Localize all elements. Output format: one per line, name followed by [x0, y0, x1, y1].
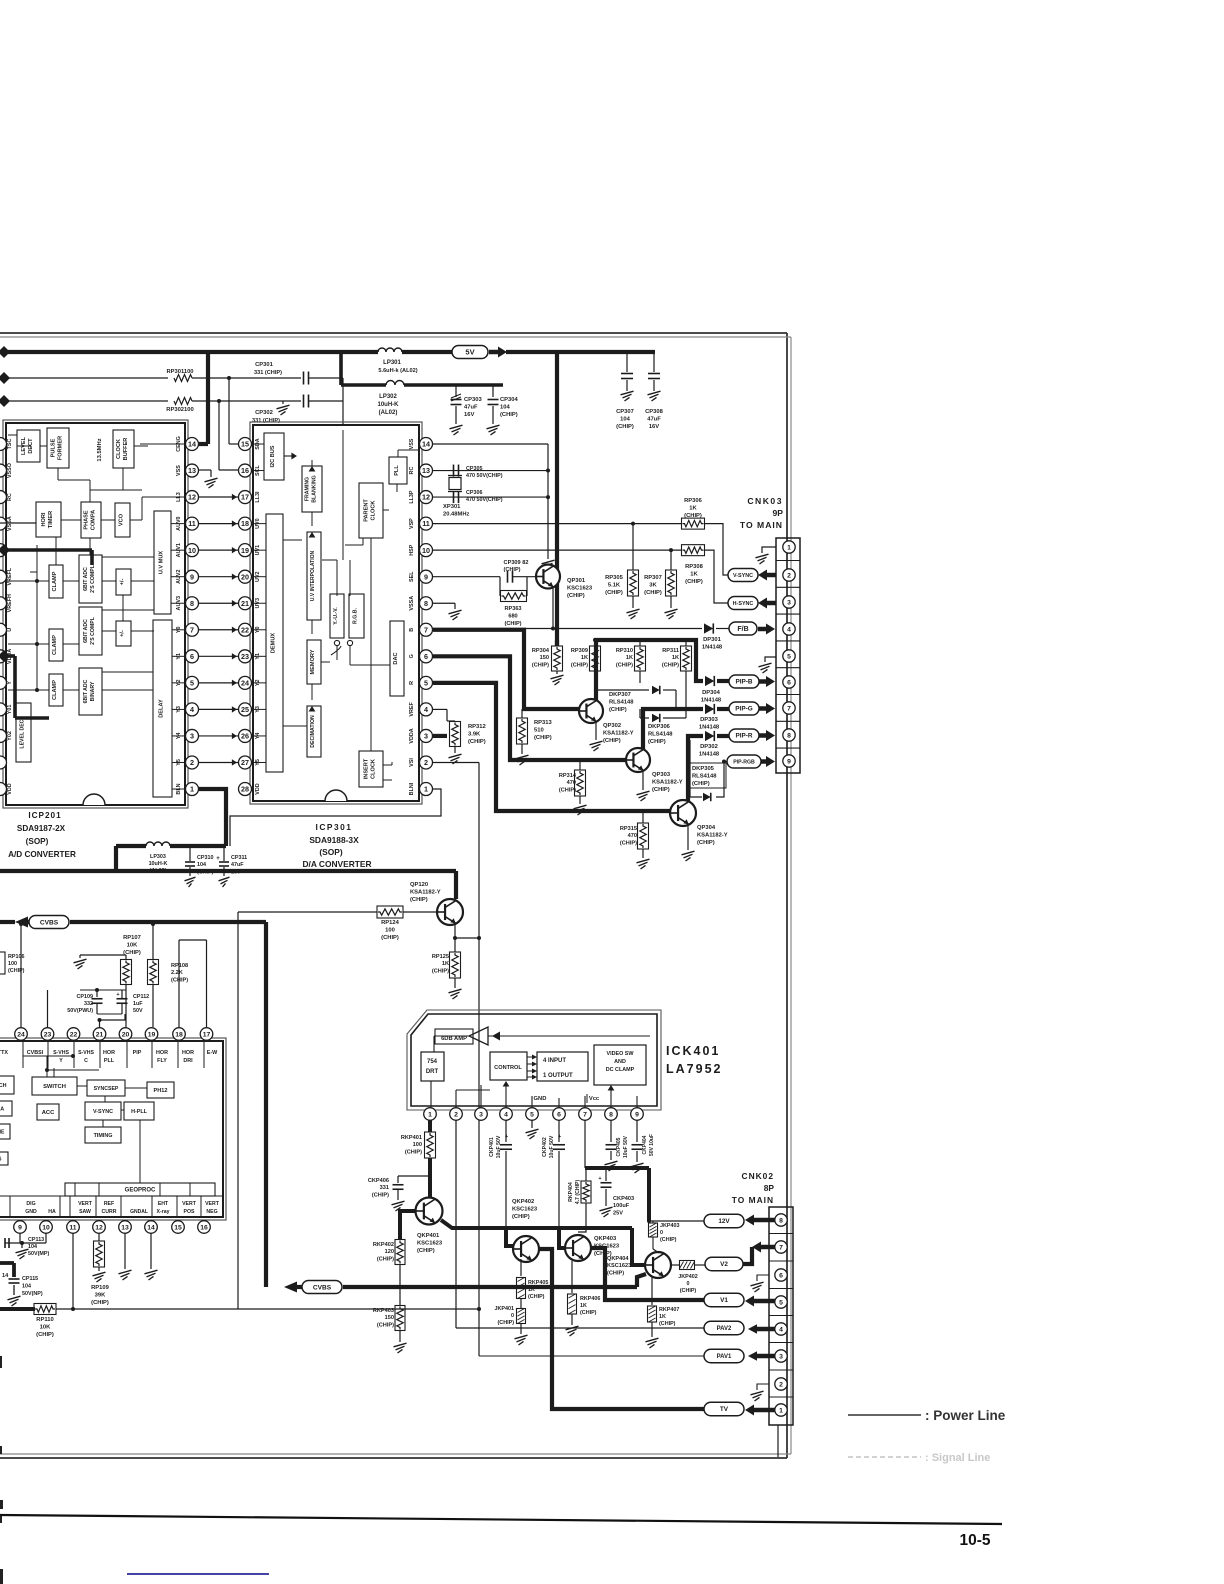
svg-text:EHT: EHT [158, 1201, 169, 1207]
svg-text:CVBS: CVBS [313, 1284, 332, 1291]
svg-text:21: 21 [96, 1031, 104, 1038]
svg-text:1N4148: 1N4148 [701, 697, 722, 703]
svg-text:10uH-K: 10uH-K [149, 861, 168, 867]
svg-text:+: + [598, 1176, 601, 1182]
svg-text:4: 4 [779, 1326, 783, 1333]
svg-text:V2: V2 [720, 1261, 728, 1268]
svg-text:RP312: RP312 [468, 724, 486, 730]
svg-text:DELAY: DELAY [159, 699, 165, 718]
svg-text:GND: GND [25, 1209, 37, 1215]
svg-text:2: 2 [424, 758, 428, 767]
svg-text:DKP307: DKP307 [609, 692, 631, 698]
svg-text:GNDAL: GNDAL [130, 1209, 148, 1215]
svg-text:PULSE: PULSE [51, 438, 57, 457]
svg-text:25V: 25V [613, 1210, 623, 1216]
svg-text:1K: 1K [689, 506, 697, 512]
svg-text:10-5: 10-5 [959, 1532, 990, 1549]
svg-text:(CHIP): (CHIP) [410, 897, 428, 903]
svg-text:23: 23 [241, 652, 249, 661]
svg-text:3: 3 [787, 599, 791, 606]
svg-text:6BIT ADC: 6BIT ADC [83, 567, 89, 591]
svg-text:QP120: QP120 [410, 882, 428, 888]
svg-text:VIDEO SW: VIDEO SW [607, 1051, 635, 1057]
svg-text:KSC1623: KSC1623 [607, 1263, 631, 1269]
svg-text:TO MAIN: TO MAIN [740, 520, 783, 530]
svg-text:RP309: RP309 [571, 648, 588, 654]
svg-text:6BIT ADC: 6BIT ADC [83, 679, 89, 703]
svg-text:(CHIP): (CHIP) [504, 621, 521, 627]
svg-text:(CHIP): (CHIP) [603, 738, 621, 744]
svg-text:100: 100 [8, 961, 17, 967]
svg-text:(CHIP): (CHIP) [571, 662, 588, 668]
svg-text:104: 104 [500, 404, 510, 410]
svg-text:3: 3 [479, 1111, 483, 1118]
svg-text:JKP403: JKP403 [660, 1223, 679, 1229]
svg-text:VSSA: VSSA [409, 596, 415, 611]
svg-text:20: 20 [122, 1031, 130, 1038]
svg-text:RP301100: RP301100 [166, 369, 193, 375]
svg-text:(CHIP): (CHIP) [660, 1237, 677, 1243]
svg-text:(CHIP): (CHIP) [559, 787, 576, 793]
svg-text:104: 104 [620, 417, 630, 423]
svg-text:S-VHS: S-VHS [78, 1050, 94, 1056]
svg-text:QKP404: QKP404 [607, 1256, 629, 1262]
svg-text:22: 22 [241, 625, 249, 634]
svg-text:QKP401: QKP401 [417, 1233, 440, 1239]
svg-text:(CHIP): (CHIP) [377, 1322, 394, 1328]
svg-text:CP308: CP308 [645, 409, 664, 415]
svg-text:PAV1: PAV1 [717, 1354, 732, 1360]
svg-text:2'S COMPL: 2'S COMPL [90, 616, 96, 645]
svg-text:I2C BUS: I2C BUS [270, 445, 276, 467]
svg-text:20.48MHz: 20.48MHz [443, 511, 470, 517]
svg-text:QKP403: QKP403 [594, 1236, 617, 1242]
svg-text:NEG: NEG [206, 1209, 217, 1215]
svg-text:50V(NP): 50V(NP) [22, 1291, 43, 1297]
svg-text:CP305: CP305 [466, 466, 482, 472]
svg-text:KSA1182-Y: KSA1182-Y [697, 832, 728, 838]
svg-text:2: 2 [779, 1381, 783, 1388]
svg-text:PIP-R: PIP-R [735, 733, 752, 740]
svg-text:CKP405: CKP405 [616, 1137, 622, 1156]
svg-text:INSERT: INSERT [364, 758, 370, 779]
svg-text:(CHIP): (CHIP) [512, 1214, 530, 1220]
svg-text:332: 332 [84, 1001, 93, 1007]
svg-text:LA7952: LA7952 [666, 1062, 722, 1076]
svg-text:E-W: E-W [207, 1050, 218, 1056]
svg-text:19: 19 [241, 546, 249, 555]
svg-text:1K: 1K [659, 1314, 666, 1320]
svg-text:1K: 1K [672, 655, 679, 661]
svg-text:: Power Line: : Power Line [925, 1408, 1006, 1423]
svg-text:(CHIP): (CHIP) [381, 935, 399, 941]
svg-text:PIP-G: PIP-G [735, 706, 752, 713]
svg-text:6BIT ADC: 6BIT ADC [83, 619, 89, 643]
svg-text:RKP405: RKP405 [528, 1280, 548, 1286]
svg-text:(CHIP): (CHIP) [8, 968, 25, 974]
svg-text:QKP402: QKP402 [512, 1199, 534, 1205]
svg-text:LEVEL DECT: LEVEL DECT [20, 716, 26, 749]
svg-text:8: 8 [779, 1217, 783, 1224]
svg-text:LP302: LP302 [379, 394, 397, 400]
svg-text:1: 1 [779, 1407, 783, 1414]
svg-text:PIP-B: PIP-B [735, 679, 752, 686]
svg-text:QP301: QP301 [567, 578, 586, 584]
svg-text:331 (CHIP): 331 (CHIP) [254, 370, 282, 376]
svg-text:KSA1182-Y: KSA1182-Y [410, 889, 441, 895]
svg-text:11: 11 [422, 519, 430, 528]
svg-text:4 INPUT: 4 INPUT [543, 1058, 566, 1064]
svg-text:0: 0 [660, 1230, 663, 1236]
svg-text:RP124: RP124 [381, 920, 400, 926]
svg-text:(CHIP): (CHIP) [620, 840, 637, 846]
svg-text:CKP402: CKP402 [542, 1137, 548, 1157]
svg-text:(SOP): (SOP) [319, 847, 342, 857]
svg-text:LP301: LP301 [383, 360, 401, 366]
svg-text:470 50V(CHIP): 470 50V(CHIP) [466, 473, 503, 479]
svg-text:1N4148: 1N4148 [699, 751, 720, 757]
svg-text:50V 10uF: 50V 10uF [649, 1134, 655, 1156]
svg-text:X-ray: X-ray [157, 1209, 170, 1215]
svg-text:3: 3 [424, 732, 428, 741]
svg-text:5: 5 [787, 653, 791, 660]
svg-text:Vcc: Vcc [589, 1096, 600, 1102]
svg-text:5: 5 [779, 1299, 783, 1306]
svg-text:754: 754 [427, 1059, 438, 1065]
svg-text:(CHIP): (CHIP) [468, 739, 486, 745]
svg-text:RKP402: RKP402 [373, 1242, 394, 1248]
svg-text:SWITCH: SWITCH [43, 1084, 66, 1090]
svg-text:VSSO: VSSO [7, 463, 13, 478]
svg-text:XP301: XP301 [443, 504, 461, 510]
svg-text:3.9K: 3.9K [468, 732, 481, 738]
svg-text:Y: Y [59, 1058, 63, 1064]
svg-text:150: 150 [385, 1315, 394, 1321]
svg-text:U: U [7, 628, 13, 632]
svg-text:VREFH: VREFH [7, 594, 13, 612]
svg-text:HSP: HSP [409, 544, 415, 555]
svg-text:C: C [84, 1058, 88, 1064]
svg-text:(CHIP): (CHIP) [659, 1321, 676, 1327]
svg-text:47uF: 47uF [464, 404, 478, 410]
svg-text:(CHIP): (CHIP) [567, 593, 585, 599]
svg-text:5: 5 [530, 1111, 534, 1118]
svg-text:RLS4148: RLS4148 [609, 699, 634, 705]
svg-text:6: 6 [190, 652, 194, 661]
svg-text:6: 6 [779, 1272, 783, 1279]
svg-text:TIMING: TIMING [94, 1133, 113, 1139]
svg-text:16V: 16V [464, 412, 474, 418]
svg-text:COMPA: COMPA [91, 510, 97, 530]
svg-text:12: 12 [422, 493, 430, 502]
svg-text:TTX: TTX [0, 1050, 8, 1056]
svg-text:(CHIP): (CHIP) [616, 424, 634, 430]
svg-text:23: 23 [44, 1031, 52, 1038]
svg-text:(CHIP): (CHIP) [532, 662, 549, 668]
svg-text:LL3I: LL3I [255, 491, 261, 503]
svg-text:(CHIP): (CHIP) [648, 739, 666, 745]
svg-text:H-SYNC: H-SYNC [733, 601, 754, 607]
svg-text:+: + [505, 1134, 508, 1140]
svg-text:QP302: QP302 [603, 723, 621, 729]
svg-text:47uF: 47uF [231, 862, 244, 868]
svg-text:H-PLL: H-PLL [131, 1109, 148, 1115]
svg-text:1: 1 [190, 785, 194, 794]
svg-text:8: 8 [609, 1111, 613, 1118]
svg-text:6: 6 [424, 652, 428, 661]
svg-text:14: 14 [2, 1273, 9, 1279]
svg-text:1K: 1K [580, 1303, 587, 1309]
svg-text:9: 9 [635, 1111, 639, 1118]
svg-text:U.V MUX: U.V MUX [159, 551, 165, 575]
svg-text:HOR: HOR [182, 1050, 194, 1056]
svg-text:MEMORY: MEMORY [310, 649, 316, 674]
svg-text:22: 22 [70, 1031, 78, 1038]
svg-text:2'S COMPL: 2'S COMPL [90, 564, 96, 593]
svg-text:1K: 1K [626, 655, 633, 661]
svg-text:CP309 82: CP309 82 [504, 560, 529, 566]
svg-text:(CHIP): (CHIP) [432, 968, 449, 974]
svg-text:CP306: CP306 [466, 490, 482, 496]
svg-text:1: 1 [424, 785, 428, 794]
svg-text:10: 10 [188, 546, 196, 555]
svg-text:(CHIP): (CHIP) [500, 412, 518, 418]
svg-text:RP305: RP305 [605, 575, 624, 581]
svg-text:(CHIP): (CHIP) [528, 1294, 545, 1300]
svg-text:9: 9 [424, 572, 428, 581]
svg-text:27: 27 [241, 758, 249, 767]
svg-text:VREFL: VREFL [7, 567, 13, 585]
svg-text:6: 6 [557, 1111, 561, 1118]
svg-text:100: 100 [385, 927, 395, 933]
svg-text:BUFFER: BUFFER [123, 438, 129, 461]
svg-text:19: 19 [148, 1031, 156, 1038]
svg-text:SDA9187-2X: SDA9187-2X [17, 824, 66, 833]
svg-text:(CHIP): (CHIP) [372, 1192, 389, 1198]
svg-text:0: 0 [511, 1313, 514, 1319]
svg-text:(CHIP): (CHIP) [609, 707, 627, 713]
svg-text:15: 15 [241, 440, 249, 449]
svg-text:FLY: FLY [157, 1058, 167, 1064]
svg-text:24: 24 [241, 678, 249, 687]
svg-text:CP112: CP112 [133, 994, 149, 1000]
svg-text:CVBSI: CVBSI [27, 1050, 44, 1056]
svg-text:9: 9 [18, 1224, 22, 1231]
svg-text:470: 470 [628, 833, 637, 839]
svg-text:3: 3 [779, 1353, 783, 1360]
svg-text:DRI: DRI [183, 1058, 193, 1064]
svg-text:10uH-K: 10uH-K [377, 402, 399, 408]
svg-text:LL3P: LL3P [409, 490, 415, 504]
svg-text:KSC1623: KSC1623 [567, 586, 593, 592]
svg-text:(CHIP): (CHIP) [498, 1320, 515, 1326]
svg-text:(CHIP): (CHIP) [684, 513, 702, 519]
svg-text:RP107: RP107 [123, 935, 141, 941]
svg-text:V-SYNC: V-SYNC [733, 573, 753, 579]
svg-text:9: 9 [190, 572, 194, 581]
svg-text:PLL: PLL [104, 1058, 115, 1064]
svg-text:+: + [116, 992, 119, 998]
svg-text:RKP404: RKP404 [568, 1182, 574, 1202]
svg-text:CLOCK: CLOCK [371, 759, 377, 779]
svg-text:13: 13 [121, 1224, 129, 1231]
svg-text:CP109: CP109 [77, 994, 93, 1000]
svg-text:CKP401: CKP401 [489, 1137, 495, 1157]
svg-text:(CHIP): (CHIP) [680, 1288, 697, 1294]
svg-text:150: 150 [540, 655, 549, 661]
svg-text:28: 28 [241, 785, 249, 794]
svg-text:PAV2: PAV2 [717, 1326, 732, 1332]
svg-text:PIP-RGB: PIP-RGB [733, 759, 755, 765]
svg-text:RKP401: RKP401 [401, 1135, 422, 1141]
svg-text:R.G.B.: R.G.B. [353, 608, 359, 624]
svg-text:JKP402: JKP402 [678, 1274, 697, 1280]
svg-text:4: 4 [504, 1111, 508, 1118]
svg-text:DEMUX: DEMUX [271, 633, 277, 653]
svg-text:13.5MHz: 13.5MHz [97, 438, 103, 461]
svg-text:18: 18 [175, 1031, 183, 1038]
svg-text:HOR: HOR [156, 1050, 168, 1056]
svg-text:CLAMP: CLAMP [52, 680, 58, 700]
svg-text:16: 16 [200, 1224, 208, 1231]
svg-text:FRAMING: FRAMING [305, 477, 311, 501]
svg-text:F/B: F/B [737, 626, 748, 633]
svg-text:CNK02: CNK02 [742, 1171, 774, 1181]
svg-text:331: 331 [380, 1185, 389, 1191]
svg-text:12: 12 [95, 1224, 103, 1231]
svg-text:POS: POS [184, 1209, 195, 1215]
svg-text:CKP404: CKP404 [642, 1135, 648, 1154]
svg-text:(CHIP): (CHIP) [692, 781, 710, 787]
svg-text:6DB AMP: 6DB AMP [441, 1036, 467, 1042]
svg-text:(CHIP): (CHIP) [36, 1332, 54, 1338]
svg-text:RP306: RP306 [684, 498, 703, 504]
svg-text:Y01: Y01 [7, 705, 13, 715]
svg-text:13: 13 [422, 466, 430, 475]
svg-text:RP106: RP106 [8, 954, 24, 960]
svg-text:21: 21 [241, 599, 249, 608]
svg-text:REF: REF [104, 1201, 114, 1207]
svg-text:11: 11 [69, 1224, 76, 1231]
svg-text:6: 6 [787, 679, 791, 686]
svg-text:AS: AS [0, 1156, 2, 1162]
svg-text:11: 11 [188, 519, 196, 528]
svg-text:CP301: CP301 [255, 362, 274, 368]
svg-text:RP307: RP307 [644, 575, 662, 581]
svg-text:5V: 5V [465, 348, 474, 357]
svg-text:CP115: CP115 [22, 1276, 38, 1282]
svg-text:+/-: +/- [120, 630, 126, 637]
svg-text:3: 3 [190, 732, 194, 741]
svg-text:470: 470 [567, 780, 576, 786]
svg-text:RLS4148: RLS4148 [692, 773, 717, 779]
svg-text:TIMER: TIMER [48, 511, 54, 528]
svg-text:CNK03: CNK03 [747, 496, 783, 506]
svg-text:7: 7 [779, 1244, 783, 1251]
svg-text:331 (CHIP): 331 (CHIP) [252, 418, 280, 424]
svg-text:RKP403: RKP403 [373, 1308, 394, 1314]
svg-text:(CHIP): (CHIP) [644, 590, 662, 596]
svg-text:10uF 50V: 10uF 50V [623, 1135, 629, 1158]
svg-text:CKP406: CKP406 [368, 1178, 389, 1184]
svg-text:RP302100: RP302100 [166, 407, 193, 413]
svg-text:BINARY: BINARY [90, 681, 96, 701]
svg-text:104: 104 [197, 862, 206, 868]
svg-text:V-SYNC: V-SYNC [93, 1109, 113, 1115]
svg-text:3K: 3K [649, 583, 657, 589]
svg-text:104: 104 [22, 1283, 31, 1289]
svg-text:14: 14 [188, 440, 196, 449]
svg-text:PARENT: PARENT [364, 499, 370, 522]
svg-text:PLL: PLL [394, 465, 400, 476]
svg-text:RP310: RP310 [616, 648, 633, 654]
svg-text:DECIMATION: DECIMATION [310, 715, 316, 748]
svg-text:RP304: RP304 [532, 648, 550, 654]
svg-text:CONTROL: CONTROL [494, 1065, 522, 1071]
svg-text:HA: HA [48, 1209, 56, 1215]
svg-text:PHASE: PHASE [84, 510, 90, 530]
svg-text:470 50V(CHIP): 470 50V(CHIP) [466, 497, 503, 503]
svg-text:(CHIP): (CHIP) [580, 1310, 597, 1316]
svg-text:RP311: RP311 [662, 648, 679, 654]
svg-text:(CHIP): (CHIP) [91, 1300, 109, 1306]
svg-text:VSP: VSP [409, 518, 415, 529]
svg-text:RLS4148: RLS4148 [648, 731, 673, 737]
svg-text:CVBS: CVBS [40, 919, 59, 926]
svg-text:16V: 16V [649, 424, 659, 430]
svg-text:17: 17 [241, 493, 249, 502]
svg-text:RKP406: RKP406 [580, 1296, 600, 1302]
svg-text:CP310: CP310 [197, 855, 213, 861]
svg-text:16: 16 [241, 466, 249, 475]
svg-text:(CHIP): (CHIP) [685, 579, 703, 585]
svg-text:10K: 10K [40, 1324, 51, 1330]
svg-text:RP108: RP108 [171, 963, 188, 969]
svg-text:DC CLAMP: DC CLAMP [606, 1067, 635, 1073]
svg-text:S-VHS: S-VHS [53, 1050, 69, 1056]
svg-text:17: 17 [203, 1031, 211, 1038]
svg-text:2.2K: 2.2K [171, 970, 183, 976]
svg-text:DP303: DP303 [700, 717, 719, 723]
svg-text:50V(MP): 50V(MP) [28, 1251, 49, 1257]
svg-text:1N4148: 1N4148 [699, 724, 720, 730]
svg-text:DP302: DP302 [700, 744, 718, 750]
svg-text:2: 2 [454, 1111, 458, 1118]
svg-text:BLNI: BLNI [409, 782, 415, 795]
svg-text:BLANKING: BLANKING [312, 475, 318, 502]
svg-text:LP303: LP303 [150, 854, 166, 860]
svg-text:5: 5 [190, 678, 194, 687]
svg-text:SEL: SEL [409, 571, 415, 582]
svg-text:CLAMP: CLAMP [52, 571, 58, 591]
svg-text:(CHIP): (CHIP) [171, 977, 188, 983]
svg-text:RP109: RP109 [91, 1285, 110, 1291]
svg-text:10uF 50V: 10uF 50V [549, 1135, 555, 1158]
svg-text:VERT: VERT [205, 1201, 220, 1207]
svg-text:B: B [409, 628, 415, 632]
svg-text:SDA9188-3X: SDA9188-3X [309, 835, 359, 845]
svg-text:(SOP): (SOP) [26, 837, 49, 846]
svg-text:CKP403: CKP403 [613, 1196, 634, 1202]
svg-text:(CHIP): (CHIP) [405, 1149, 422, 1155]
svg-text:VDD: VDD [255, 783, 261, 794]
svg-text:JKP401: JKP401 [495, 1306, 514, 1312]
svg-text:CHE: CHE [0, 1129, 5, 1135]
svg-text:(CHIP): (CHIP) [605, 590, 623, 596]
svg-text:KSA1182-Y: KSA1182-Y [603, 730, 634, 736]
svg-text:U.V INTERPOLATION: U.V INTERPOLATION [310, 551, 316, 602]
svg-text:14: 14 [422, 440, 430, 449]
